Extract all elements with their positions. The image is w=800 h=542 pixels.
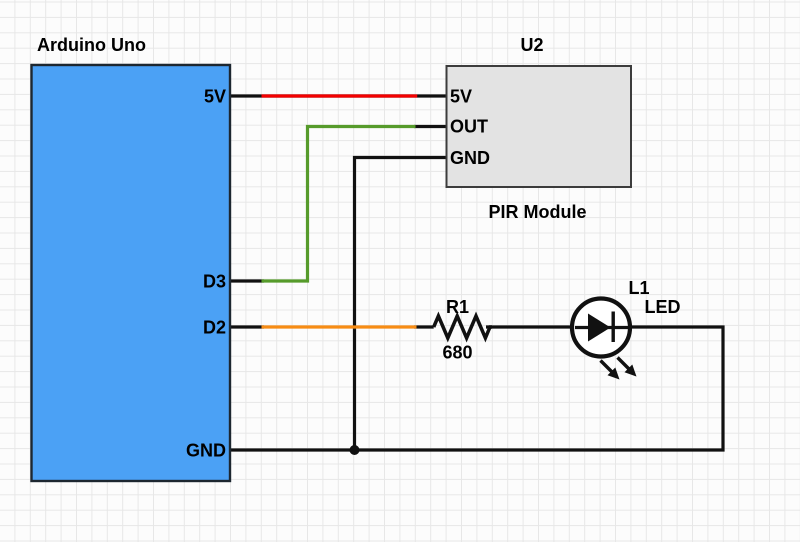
svg-text:680: 680 — [442, 343, 472, 363]
svg-text:5V: 5V — [450, 87, 472, 107]
svg-text:PIR Module: PIR Module — [489, 202, 587, 222]
svg-text:L1: L1 — [628, 278, 649, 298]
svg-text:GND: GND — [186, 441, 226, 461]
svg-text:OUT: OUT — [450, 117, 488, 137]
svg-text:D2: D2 — [203, 318, 226, 338]
svg-text:Arduino Uno: Arduino Uno — [37, 35, 146, 55]
svg-text:R1: R1 — [446, 297, 469, 317]
svg-text:LED: LED — [645, 297, 681, 317]
svg-text:U2: U2 — [520, 35, 543, 55]
svg-text:D3: D3 — [203, 272, 226, 292]
svg-text:5V: 5V — [204, 87, 226, 107]
svg-text:GND: GND — [450, 148, 490, 168]
